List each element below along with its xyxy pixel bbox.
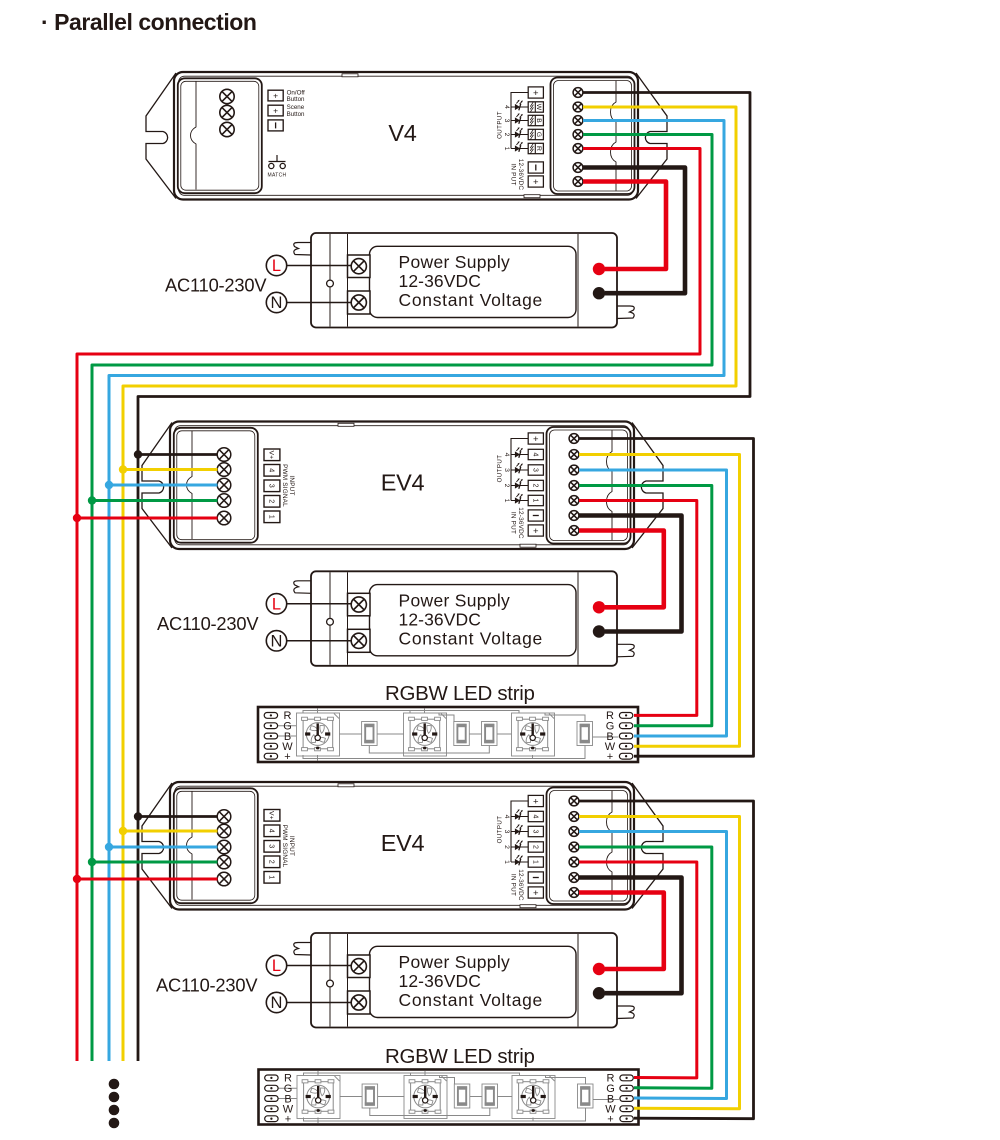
strip2 resistor R1 [362, 1084, 378, 1108]
RGBW LED strip strip2 board [259, 1070, 639, 1125]
PSU1 terminal blocks [348, 255, 371, 314]
PSU2 DC output nodes [593, 601, 605, 638]
PSU3 L terminal [266, 955, 351, 975]
svg-text:1: 1 [503, 860, 510, 864]
junction bus to EV4#1 ch1 [77, 517, 218, 520]
svg-text:12-36VDC: 12-36VDC [517, 869, 524, 901]
EV4 output channel LED indicators [503, 801, 528, 865]
wire EV4#1 V+ to strip1 plus [579, 439, 754, 757]
EV4 controller EV4 body [170, 782, 634, 910]
junction bus to EV4#2 ch4 [123, 830, 218, 833]
strip1 left solder pads [264, 713, 277, 760]
wire EV4#2 ch2 to strip2 G [579, 847, 712, 1088]
strip2 resistor R2 [454, 1084, 470, 1108]
svg-text:Constant Voltage: Constant Voltage [399, 290, 544, 310]
svg-text:PWM SIGNAL: PWM SIGNAL [281, 825, 288, 868]
svg-text:+: + [533, 88, 539, 99]
svg-text:12-36VDC: 12-36VDC [399, 271, 482, 291]
PSU1 junction node [327, 280, 334, 287]
wire V4 V+ (black) to bus [138, 93, 750, 1062]
wire V4 ch2 G (green) to bus [92, 135, 712, 1062]
wire EV4#2 ch4 to strip2 W [579, 817, 740, 1109]
power supply PSU1 body [294, 233, 634, 328]
strip2 LED2 [404, 1076, 447, 1119]
power supply PSU3 body [294, 933, 634, 1028]
svg-text:OUTPUT: OUTPUT [497, 111, 504, 139]
svg-text:3: 3 [531, 830, 538, 834]
PSU3 label text [399, 952, 544, 1010]
svg-text:4: 4 [503, 815, 510, 819]
junction bus to EV4#1 ch2 [92, 499, 218, 502]
strip1 right solder pads [619, 713, 632, 760]
svg-text:1: 1 [503, 499, 510, 503]
V4 right mounting wing [636, 73, 667, 199]
svg-text:N: N [271, 994, 283, 1012]
wire EV4#1 ch2 to strip1 G [579, 486, 712, 726]
svg-text:N: N [271, 294, 283, 312]
svg-text:+: + [533, 796, 539, 807]
svg-text:OUTPUT: OUTPUT [497, 816, 504, 844]
svg-text:+: + [285, 1113, 291, 1125]
svg-text:MATCH: MATCH [268, 173, 287, 179]
wire V4 input minus (black) to PSU1 [583, 168, 685, 294]
PSU1 L terminal [266, 255, 351, 275]
svg-text:4: 4 [267, 829, 276, 833]
strip2 resistor R4 [578, 1084, 594, 1108]
svg-text:W: W [535, 104, 542, 111]
svg-text:4: 4 [503, 105, 510, 109]
svg-text:+: + [533, 434, 539, 445]
svg-text:IN PUT: IN PUT [510, 874, 517, 896]
strip1 resistor R4 [577, 722, 593, 746]
EV4 right screw terminals [569, 434, 579, 536]
svg-text:EV4: EV4 [381, 470, 425, 496]
junction bus to EV4#1 V+ [138, 453, 218, 456]
V4 right screw terminals [573, 88, 583, 187]
EV4 output channel LED indicators [503, 439, 528, 504]
svg-text:RGBW LED strip: RGBW LED strip [385, 682, 535, 705]
svg-text:L: L [272, 595, 281, 613]
wire V4 ch3 B (blue) to bus [109, 121, 724, 1062]
svg-text:12-36VDC: 12-36VDC [399, 609, 482, 629]
svg-text:1: 1 [503, 147, 510, 151]
svg-text:4: 4 [267, 468, 276, 472]
svg-text:AC110-230V: AC110-230V [156, 975, 258, 996]
strip2 copper traces [278, 1071, 619, 1123]
svg-text:2: 2 [503, 484, 510, 488]
svg-text:INPUT: INPUT [288, 475, 295, 495]
EV4 controller EV4 body [170, 422, 634, 550]
V4 left screw terminals [220, 89, 234, 136]
wire EV4#1 ch4 to strip1 W [579, 455, 740, 747]
svg-text:2: 2 [503, 133, 510, 137]
wire EV4#2 input minus to PSU3 [579, 878, 682, 994]
svg-text:Constant Voltage: Constant Voltage [399, 990, 544, 1010]
svg-text:AC110-230V: AC110-230V [165, 275, 267, 296]
svg-text:4: 4 [531, 453, 538, 457]
junction bus to EV4#2 ch2 [92, 861, 218, 864]
svg-text:L: L [272, 957, 281, 975]
wire EV4#1 input plus to PSU2 [579, 531, 664, 608]
EV4 right mounting wing [632, 423, 663, 549]
EV4 PWM input terminal boxes [264, 449, 280, 523]
junction bus to EV4#1 ch3 [109, 484, 218, 487]
svg-text:+: + [533, 888, 539, 899]
svg-text:+: + [607, 1113, 613, 1125]
PSU2 L terminal [266, 594, 351, 614]
strip1 left pad labels [282, 710, 293, 763]
svg-text:+: + [284, 751, 290, 763]
svg-text:G: G [535, 132, 542, 137]
strip2 left solder pads [265, 1075, 278, 1122]
svg-text:+: + [273, 90, 278, 100]
svg-text:· Parallel connection: · Parallel connection [41, 9, 257, 35]
svg-text:INPUT: INPUT [288, 836, 295, 856]
EV4 right terminal panel [547, 788, 631, 905]
strip2 right pad labels [605, 1073, 616, 1126]
svg-text:R: R [535, 146, 542, 151]
svg-text:1: 1 [267, 875, 276, 879]
strip1 LED2 [404, 713, 447, 756]
svg-text:B: B [535, 118, 542, 123]
svg-text:4: 4 [503, 453, 510, 457]
PSU3 terminal blocks [348, 955, 371, 1014]
PSU1 label text [399, 252, 544, 310]
svg-text:12-36VDC: 12-36VDC [517, 159, 524, 191]
svg-text:3: 3 [503, 468, 510, 472]
strip1 LED3 [512, 713, 555, 756]
svg-text:1: 1 [531, 499, 538, 503]
PSU1 N terminal [266, 292, 351, 312]
EV4 left terminal panel [174, 788, 258, 903]
wire EV4#2 input plus to PSU3 [579, 893, 664, 970]
svg-text:EV4: EV4 [381, 830, 425, 856]
EV4 left mounting wing [142, 783, 172, 909]
V4 Scene button [268, 104, 305, 118]
wire EV4#1 ch1 to strip1 R [579, 501, 697, 716]
svg-text:12-36VDC: 12-36VDC [399, 971, 482, 991]
PSU3 N terminal [266, 992, 351, 1012]
svg-text:OUTPUT: OUTPUT [497, 455, 504, 483]
PSU2 junction node [327, 618, 334, 625]
strip2 resistor R3 [482, 1084, 498, 1108]
svg-text:3: 3 [267, 844, 276, 848]
EV4 output/input terminal boxes [528, 795, 543, 898]
wire EV4#2 V+ to strip2 plus [579, 801, 754, 1119]
svg-text:PWM SIGNAL: PWM SIGNAL [281, 464, 288, 507]
svg-text:3: 3 [531, 468, 538, 472]
svg-text:+: + [533, 526, 539, 537]
V4 On/Off button [268, 89, 305, 103]
wire EV4#1 ch3 to strip1 B [579, 470, 727, 736]
svg-text:2: 2 [267, 499, 276, 503]
strip2 right solder pads [620, 1075, 633, 1122]
junction bus to EV4#2 V+ [138, 815, 218, 818]
svg-text:3: 3 [503, 119, 510, 123]
svg-text:3: 3 [267, 484, 276, 488]
strip1 right pad labels [605, 710, 616, 763]
RGBW LED strip strip1 board [258, 707, 638, 762]
svg-text:2: 2 [503, 845, 510, 849]
strip2 left pad labels [283, 1073, 294, 1126]
svg-text:+: + [533, 177, 539, 188]
svg-text:2: 2 [531, 484, 538, 488]
svg-text:L: L [272, 257, 281, 275]
PSU2 N terminal [266, 631, 351, 651]
EV4 left screw terminals [217, 810, 231, 886]
svg-text:1: 1 [267, 515, 276, 519]
wire EV4#2 ch3 to strip2 B [579, 832, 727, 1099]
strip1 LED1 [297, 713, 340, 756]
svg-text:V+: V+ [268, 811, 275, 820]
V4 controller V4 body [174, 72, 638, 200]
EV4 output/input terminal boxes [528, 433, 543, 537]
V4 MATCH button [268, 155, 287, 179]
svg-text:IN PUT: IN PUT [510, 512, 517, 534]
wire EV4#2 ch1 to strip2 R [579, 862, 697, 1078]
EV4 right terminal panel [547, 427, 631, 544]
PSU3 junction node [327, 980, 334, 987]
svg-text:2: 2 [267, 860, 276, 864]
svg-text:3: 3 [503, 830, 510, 834]
svg-text:Button: Button [287, 111, 305, 118]
V4 minus button [268, 120, 283, 131]
wire EV4#1 input minus to PSU2 [579, 516, 682, 632]
svg-text:+: + [273, 105, 278, 115]
strip2 LED1 [297, 1076, 340, 1119]
EV4 right mounting wing [632, 783, 663, 909]
wire V4 ch1 R (red) to bus [77, 149, 700, 1062]
svg-text:12-36VDC: 12-36VDC [517, 507, 524, 539]
svg-text:Button: Button [287, 96, 305, 103]
svg-text:V+: V+ [268, 451, 275, 460]
svg-text:N: N [271, 632, 283, 650]
wire V4 input plus (red) to PSU1 [583, 182, 666, 270]
V4 output/input terminal boxes [528, 87, 543, 188]
svg-text:Power Supply: Power Supply [399, 590, 511, 610]
EV4 PWM input terminal boxes [264, 810, 280, 884]
EV4 left screw terminals [217, 448, 231, 525]
strip1 resistor R2 [454, 722, 470, 746]
continuation ellipsis dots [109, 1079, 120, 1129]
wire V4 ch4 W (yellow) to bus [123, 107, 736, 1061]
svg-text:Power Supply: Power Supply [399, 952, 511, 972]
svg-text:Power Supply: Power Supply [399, 252, 511, 272]
svg-text:V4: V4 [388, 120, 416, 146]
strip1 resistor R1 [362, 722, 378, 746]
svg-text:Constant Voltage: Constant Voltage [399, 628, 544, 648]
strip1 copper traces [278, 709, 619, 761]
PSU1 DC output nodes [593, 263, 605, 300]
PSU2 label text [399, 590, 544, 648]
junction bus to EV4#1 ch4 [123, 468, 218, 471]
strip1 resistor R3 [482, 722, 498, 746]
V4 left mounting wing [146, 73, 176, 199]
V4 output channel LED indicators [503, 93, 528, 152]
power supply PSU2 body [294, 571, 634, 666]
PSU3 DC output nodes [593, 963, 605, 1000]
junction bus to EV4#2 ch1 [77, 878, 218, 881]
svg-text:+: + [607, 751, 613, 763]
V4 right terminal panel [551, 78, 635, 195]
svg-text:RGBW LED strip: RGBW LED strip [385, 1045, 535, 1068]
strip2 LED3 [512, 1076, 555, 1119]
PSU2 terminal blocks [348, 593, 371, 652]
svg-text:IN PUT: IN PUT [510, 163, 517, 185]
svg-text:4: 4 [531, 815, 538, 819]
EV4 left terminal panel [174, 428, 258, 543]
EV4 left mounting wing [142, 423, 172, 549]
V4 left terminal panel [178, 78, 262, 193]
svg-text:AC110-230V: AC110-230V [157, 613, 259, 634]
svg-text:2: 2 [531, 845, 538, 849]
EV4 right screw terminals [569, 796, 579, 897]
junction bus to EV4#2 ch3 [109, 846, 218, 849]
svg-text:1: 1 [531, 860, 538, 864]
